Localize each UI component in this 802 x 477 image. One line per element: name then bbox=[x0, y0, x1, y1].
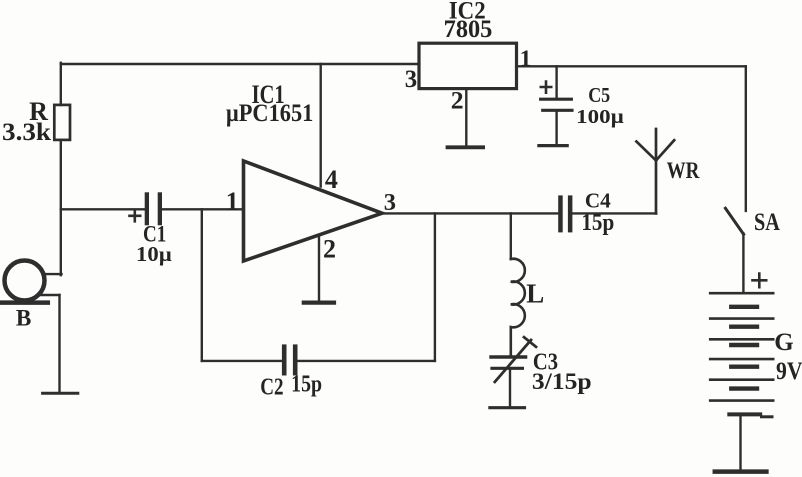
battery minus sign bbox=[762, 415, 773, 418]
wire IC2 pin 2 bbox=[465, 89, 467, 146]
antenna WR mast bbox=[655, 129, 658, 213]
wire microphone to ground bbox=[58, 295, 60, 392]
ground under C3 bbox=[490, 406, 525, 409]
C5 plus sign bbox=[541, 82, 551, 93]
wire switch to battery bbox=[742, 234, 744, 293]
svg-text:C4: C4 bbox=[585, 189, 611, 213]
svg-text:1: 1 bbox=[226, 187, 239, 216]
svg-text:L: L bbox=[526, 279, 544, 309]
svg-text:µPC1651: µPC1651 bbox=[226, 100, 314, 127]
battery long plate 3 bbox=[710, 338, 773, 341]
battery plus sign bbox=[753, 274, 767, 288]
battery short plate 4 bbox=[731, 365, 757, 369]
svg-text:C5: C5 bbox=[588, 83, 610, 107]
wire IC2 output rail bbox=[517, 65, 746, 67]
capacitor C3 bottom plate bbox=[492, 367, 522, 370]
battery short plate 1 bbox=[731, 305, 757, 309]
wire C5 top lead bbox=[555, 66, 557, 97]
wire to C2 left bbox=[202, 360, 282, 362]
wire pin 4 from rail bbox=[320, 64, 322, 187]
svg-text:100µ: 100µ bbox=[576, 106, 624, 128]
wire C2 right bbox=[298, 360, 435, 362]
svg-text:3/15p: 3/15p bbox=[532, 369, 592, 394]
svg-text:4: 4 bbox=[325, 165, 338, 194]
svg-text:3: 3 bbox=[405, 66, 417, 93]
wire C4 to antenna bbox=[572, 212, 656, 214]
ground under C5 bbox=[539, 144, 567, 147]
battery short plate 3 bbox=[731, 343, 757, 347]
battery long plate 6 bbox=[710, 399, 773, 402]
svg-text:1: 1 bbox=[520, 46, 532, 72]
battery long plate 2 bbox=[710, 317, 773, 320]
svg-text:G: G bbox=[774, 329, 793, 356]
wire node drop to C2 bbox=[201, 209, 203, 361]
wire right rail bbox=[745, 66, 747, 211]
capacitor C3 top plate bbox=[491, 355, 526, 358]
switch SA blade bbox=[725, 208, 743, 234]
ground IC2 pin 2 bbox=[448, 145, 484, 149]
antenna right arm bbox=[656, 140, 674, 160]
capacitor C1 left plate bbox=[145, 192, 149, 225]
svg-text:2: 2 bbox=[323, 235, 336, 264]
wire battery to ground bbox=[739, 414, 741, 469]
wire jog from microphone lower bbox=[40, 294, 60, 296]
battery long plate 4 bbox=[710, 358, 773, 361]
wire C3 to ground bbox=[509, 370, 511, 406]
C1 plus sign bbox=[130, 210, 141, 221]
wire C2 riser to output bbox=[434, 213, 436, 361]
capacitor C1 right plate bbox=[158, 192, 162, 225]
microphone B base plate bbox=[0, 300, 48, 305]
svg-text:3.3k: 3.3k bbox=[2, 117, 52, 146]
svg-text:7805: 7805 bbox=[444, 14, 493, 43]
wire left rail below resistor bbox=[60, 140, 62, 275]
capacitor C2 left plate bbox=[282, 344, 287, 375]
C3 trimmer arrow bar bbox=[524, 337, 536, 347]
wire left rail upper bbox=[60, 63, 62, 105]
C3 trimmer arrow bbox=[495, 340, 531, 382]
regulator IC2 box bbox=[419, 43, 517, 88]
battery short plate 5 bbox=[731, 386, 757, 390]
wire output pin 3 bbox=[382, 212, 558, 214]
wire drop to L bbox=[510, 213, 512, 259]
capacitor C5 bottom plate bbox=[543, 109, 572, 112]
svg-text:B: B bbox=[16, 305, 31, 331]
wire C1 to pin 1 bbox=[162, 208, 244, 210]
ground under microphone bbox=[43, 392, 78, 395]
ground bottom right bbox=[715, 469, 767, 474]
wire C5 to ground bbox=[555, 112, 557, 145]
svg-text:9V: 9V bbox=[776, 357, 802, 385]
battery G long plate 1 bbox=[710, 292, 773, 295]
resistor R bbox=[54, 105, 70, 140]
ground IC1 pin 2 bbox=[304, 301, 334, 305]
wire node to C1 bbox=[61, 208, 145, 210]
wire jog to microphone top bbox=[44, 273, 62, 275]
wire pin 2 to ground bbox=[318, 236, 320, 301]
microphone B circle bbox=[5, 261, 45, 301]
battery short plate 2 bbox=[731, 325, 757, 329]
capacitor C4 right plate bbox=[568, 195, 573, 232]
svg-text:C2: C2 bbox=[260, 374, 283, 401]
inductor L bbox=[511, 259, 525, 356]
capacitor C2 right plate bbox=[293, 344, 298, 375]
op-amp U1 triangle bbox=[244, 161, 383, 261]
svg-text:3: 3 bbox=[384, 189, 396, 216]
svg-text:2: 2 bbox=[451, 86, 464, 115]
antenna left arm bbox=[636, 142, 656, 161]
battery long plate 5 bbox=[710, 378, 773, 381]
capacitor C4 left plate bbox=[558, 195, 563, 232]
svg-text:10µ: 10µ bbox=[136, 242, 172, 266]
svg-text:15p: 15p bbox=[581, 210, 614, 236]
capacitor C5 top plate bbox=[541, 98, 572, 101]
svg-text:15p: 15p bbox=[291, 371, 322, 398]
battery negative terminal bbox=[729, 412, 760, 416]
svg-text:WR: WR bbox=[667, 158, 700, 183]
svg-text:SA: SA bbox=[754, 209, 780, 236]
wire top supply rail bbox=[61, 63, 419, 65]
